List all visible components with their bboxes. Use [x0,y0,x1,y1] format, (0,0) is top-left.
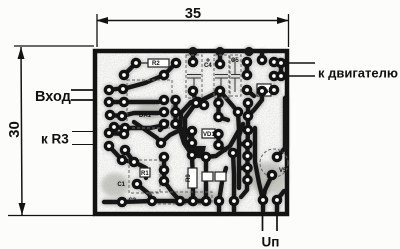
svg-text:Вход: Вход [35,89,71,105]
svg-text:35: 35 [185,6,201,22]
svg-text:к R3: к R3 [41,132,69,147]
svg-text:Uп: Uп [262,235,280,249]
svg-text:к двигателю: к двигателю [318,66,398,81]
svg-text:30: 30 [6,121,23,138]
